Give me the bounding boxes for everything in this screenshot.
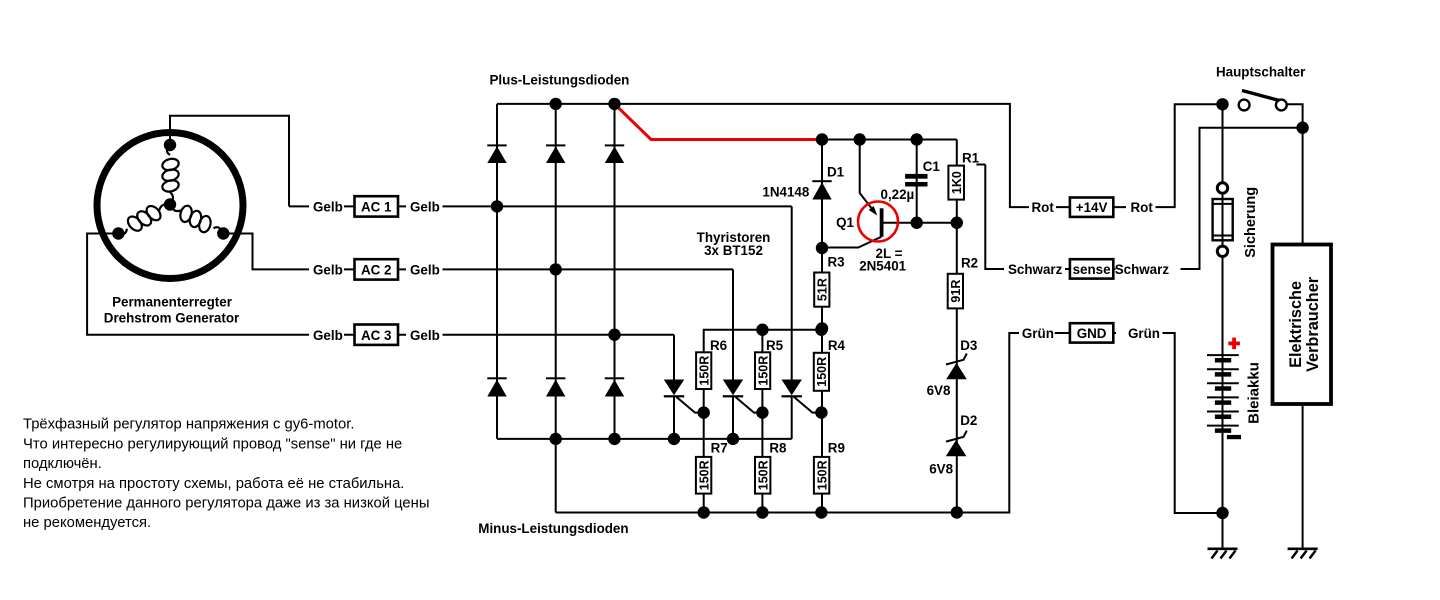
- svg-text:AC 1: AC 1: [361, 200, 392, 215]
- svg-text:Приобретение данного регулятор: Приобретение данного регулятора даже из …: [23, 496, 429, 512]
- svg-text:Rot: Rot: [1131, 200, 1154, 215]
- svg-text:R3: R3: [828, 255, 845, 270]
- svg-text:не рекомендуется.: не рекомендуется.: [23, 515, 151, 531]
- svg-text:3x BT152: 3x BT152: [704, 243, 763, 258]
- svg-text:Schwarz: Schwarz: [1008, 262, 1063, 277]
- svg-text:Не смотря на простоту схемы, р: Не смотря на простоту схемы, работа её н…: [23, 476, 404, 492]
- svg-text:Gelb: Gelb: [410, 200, 440, 215]
- svg-text:Hauptschalter: Hauptschalter: [1216, 65, 1306, 80]
- svg-text:1K0: 1K0: [950, 171, 964, 194]
- svg-text:Elektrische: Elektrische: [1287, 281, 1305, 368]
- svg-text:Трёхфазный регулятор напряжени: Трёхфазный регулятор напряжения с gy6-mo…: [23, 417, 354, 433]
- svg-text:R9: R9: [828, 441, 845, 456]
- svg-text:Verbraucher: Verbraucher: [1304, 276, 1322, 372]
- svg-text:Drehstrom Generator: Drehstrom Generator: [104, 311, 240, 326]
- svg-text:Minus-Leistungsdioden: Minus-Leistungsdioden: [478, 521, 628, 536]
- svg-text:AC 3: AC 3: [361, 328, 392, 343]
- svg-text:Plus-Leistungsdioden: Plus-Leistungsdioden: [490, 73, 630, 88]
- svg-text:6V8: 6V8: [927, 383, 951, 398]
- svg-text:150R: 150R: [815, 357, 829, 387]
- svg-text:150R: 150R: [697, 460, 711, 490]
- svg-text:GND: GND: [1077, 326, 1107, 341]
- svg-text:Sicherung: Sicherung: [1243, 187, 1259, 258]
- svg-text:150R: 150R: [756, 460, 770, 490]
- svg-text:C1: C1: [923, 159, 941, 174]
- svg-text:Что интересно регулирующий про: Что интересно регулирующий провод "sense…: [23, 437, 402, 453]
- svg-text:6V8: 6V8: [929, 462, 953, 477]
- svg-text:R4: R4: [828, 338, 846, 353]
- svg-text:150R: 150R: [697, 356, 711, 386]
- svg-text:Gelb: Gelb: [313, 200, 343, 215]
- svg-text:Schwarz: Schwarz: [1115, 262, 1170, 277]
- svg-text:D1: D1: [827, 165, 845, 180]
- svg-text:D3: D3: [960, 338, 977, 353]
- svg-text:R6: R6: [710, 338, 727, 353]
- svg-text:Gelb: Gelb: [313, 263, 343, 278]
- svg-text:91R: 91R: [949, 280, 963, 303]
- svg-text:+14V: +14V: [1076, 200, 1108, 215]
- svg-text:Q1: Q1: [836, 215, 854, 230]
- svg-text:Gelb: Gelb: [313, 328, 343, 343]
- svg-text:подключён.: подключён.: [23, 456, 102, 472]
- svg-text:2N5401: 2N5401: [859, 259, 906, 274]
- svg-text:R5: R5: [766, 338, 784, 353]
- svg-text:51R: 51R: [816, 278, 830, 301]
- svg-text:R2: R2: [961, 256, 978, 271]
- svg-text:150R: 150R: [756, 356, 770, 386]
- svg-text:Grün: Grün: [1128, 326, 1160, 341]
- svg-text:R1: R1: [962, 151, 980, 166]
- svg-text:Rot: Rot: [1032, 200, 1055, 215]
- svg-text:AC 2: AC 2: [361, 263, 392, 278]
- svg-text:Gelb: Gelb: [410, 328, 440, 343]
- svg-text:Gelb: Gelb: [410, 263, 440, 278]
- svg-text:R7: R7: [711, 441, 728, 456]
- svg-text:Grün: Grün: [1022, 326, 1054, 341]
- svg-text:1N4148: 1N4148: [762, 185, 809, 200]
- svg-text:0,22µ: 0,22µ: [881, 187, 915, 202]
- svg-text:Permanenterregter: Permanenterregter: [112, 295, 233, 310]
- svg-text:R8: R8: [769, 441, 787, 456]
- svg-text:D2: D2: [960, 413, 977, 428]
- svg-text:Bleiakku: Bleiakku: [1245, 362, 1262, 424]
- svg-text:sense: sense: [1073, 262, 1111, 277]
- svg-text:150R: 150R: [815, 460, 829, 490]
